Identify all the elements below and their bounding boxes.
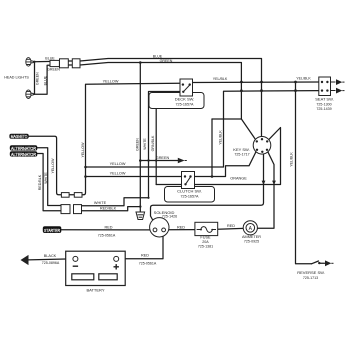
svg-text:YELLOW: YELLOW bbox=[51, 158, 55, 174]
svg-text:725-1657A: 725-1657A bbox=[180, 194, 199, 198]
wire grn/blk stub vertical bbox=[155, 109, 157, 185]
svg-text:GREEN: GREEN bbox=[160, 59, 173, 63]
svg-text:RED/BLK: RED/BLK bbox=[38, 174, 42, 190]
svg-text:YELLOW: YELLOW bbox=[110, 172, 126, 176]
svg-text:725-1713: 725-1713 bbox=[303, 276, 318, 280]
svg-text:725-1657A: 725-1657A bbox=[175, 103, 194, 107]
svg-text:YEL/BLK: YEL/BLK bbox=[296, 76, 311, 80]
svg-text:DECK SW.: DECK SW. bbox=[175, 97, 195, 102]
svg-text:725-0561A: 725-0561A bbox=[98, 233, 116, 237]
svg-text:HEAD LIGHTS: HEAD LIGHTS bbox=[4, 76, 29, 80]
wire starter to solenoid red bbox=[61, 229, 151, 231]
wire yellow2 clutch line bbox=[86, 176, 182, 178]
svg-text:AMMETER: AMMETER bbox=[242, 235, 261, 239]
battery negative chassis arrow bbox=[21, 255, 29, 265]
wire red/blk alternator to ground bbox=[82, 207, 141, 211]
svg-text:GREEN: GREEN bbox=[35, 72, 39, 85]
svg-text:YELLOW: YELLOW bbox=[81, 142, 85, 158]
wire clutch to SW key spoke bbox=[195, 151, 257, 177]
seat switch SEAT SW. bbox=[319, 77, 345, 96]
wire key S to solenoid bbox=[151, 154, 264, 221]
wire green vertical to ground bbox=[139, 63, 141, 212]
svg-text:GREEN: GREEN bbox=[47, 67, 60, 71]
inline connector stubs on yellow bbox=[61, 193, 69, 198]
svg-text:REVERSE SW.: REVERSE SW. bbox=[297, 270, 325, 275]
wire clutch lower-left to x155 bbox=[156, 184, 181, 186]
reverse switch REVERSE SW. bbox=[318, 262, 320, 264]
wire headlight bulb2 to connector bbox=[34, 65, 60, 94]
headlight bulb 1 bbox=[26, 58, 34, 67]
headlight connector female bbox=[72, 59, 80, 68]
inline connector arrow on key SE wire bbox=[272, 181, 276, 185]
wire seat switch to reverse switch bbox=[296, 82, 312, 264]
starter label box bbox=[43, 226, 62, 234]
svg-text:MAGNETO: MAGNETO bbox=[11, 134, 28, 139]
svg-text:GREEN: GREEN bbox=[156, 156, 170, 160]
svg-text:WHITE: WHITE bbox=[44, 172, 48, 184]
svg-text:ALTERNATOR: ALTERNATOR bbox=[11, 146, 37, 151]
wire orange clutch to key NE bbox=[195, 128, 281, 185]
reverse switch blade bbox=[312, 261, 319, 264]
svg-text:GREEN: GREEN bbox=[136, 138, 140, 151]
svg-text:SEAT SW.: SEAT SW. bbox=[315, 97, 334, 102]
svg-text:YEL/BLK: YEL/BLK bbox=[219, 130, 223, 145]
deck switch DECK SW. bbox=[180, 79, 193, 96]
svg-text:YELLOW: YELLOW bbox=[103, 80, 119, 84]
wire connector out pair bbox=[68, 60, 72, 62]
svg-text:WHITE: WHITE bbox=[94, 201, 107, 205]
svg-text:RED: RED bbox=[177, 225, 185, 229]
svg-text:725-1300: 725-1300 bbox=[316, 102, 331, 106]
alternator label box 1 bbox=[10, 145, 38, 151]
wire fuse to ammeter red bbox=[218, 227, 244, 230]
wire green branch to engine plug bbox=[140, 160, 178, 162]
wire y119 jumper to key NW junction bbox=[212, 118, 241, 120]
svg-text:BLACK: BLACK bbox=[44, 254, 57, 258]
wire x212 riser bbox=[211, 119, 213, 177]
svg-text:725-0925: 725-0925 bbox=[244, 239, 259, 243]
wire battery plus to solenoid red bbox=[119, 236, 163, 258]
wire green headlight return to key switch NW via x241 bbox=[80, 63, 256, 140]
svg-text:RED: RED bbox=[141, 254, 149, 258]
svg-text:ORANGE: ORANGE bbox=[230, 177, 247, 181]
svg-text:725-1717: 725-1717 bbox=[234, 153, 249, 157]
ground chassis symbol bbox=[136, 212, 145, 220]
svg-text:725-0561A: 725-0561A bbox=[139, 262, 157, 266]
wire yellow1 interlock to seat switch bottom bbox=[86, 91, 319, 167]
svg-text:ALTERNATOR: ALTERNATOR bbox=[11, 152, 37, 157]
wire key SE to ammeter bbox=[257, 151, 274, 229]
svg-text:BLUE: BLUE bbox=[45, 56, 55, 60]
alternator label box 2 bbox=[10, 151, 38, 157]
wire solenoid to fuse red bbox=[165, 229, 195, 231]
svg-text:725-1426: 725-1426 bbox=[162, 215, 177, 219]
svg-text:BLUE: BLUE bbox=[43, 75, 47, 85]
clutch switch CLUTCH SW. bbox=[182, 172, 195, 189]
wire battery minus black to chassis bbox=[28, 258, 66, 261]
wire headlight jumper vertical bbox=[34, 62, 36, 95]
svg-text:CLUTCH SW.: CLUTCH SW. bbox=[177, 188, 202, 193]
ammeter bbox=[243, 221, 257, 235]
clutch switch label box bbox=[165, 187, 215, 203]
svg-text:BATTERY: BATTERY bbox=[86, 288, 104, 293]
svg-text:RED: RED bbox=[104, 226, 112, 230]
wire alternator1 bbox=[37, 148, 61, 206]
svg-text:YEL/BLK: YEL/BLK bbox=[290, 152, 294, 167]
green engine plug arrow bbox=[178, 158, 185, 163]
wire yel/blk deck switch to seat switch top bbox=[193, 81, 319, 84]
headlight bulb 2 bbox=[26, 90, 34, 99]
svg-text:725-0896A: 725-0896A bbox=[42, 261, 60, 265]
svg-text:725-1439: 725-1439 bbox=[316, 107, 331, 111]
wire headlight bulb1 feed bbox=[34, 60, 60, 63]
svg-text:WHITE: WHITE bbox=[143, 138, 147, 150]
svg-text:RED/BLK: RED/BLK bbox=[100, 207, 117, 211]
svg-text:RED: RED bbox=[227, 224, 235, 228]
svg-text:GRN/BLK: GRN/BLK bbox=[151, 135, 155, 151]
svg-text:YEL/BLK: YEL/BLK bbox=[213, 77, 228, 81]
wire magneto yellow distribution bbox=[29, 83, 181, 195]
deck switch label box bbox=[149, 93, 204, 109]
svg-text:STARTER: STARTER bbox=[44, 228, 60, 234]
wire white alternator to deck switch bbox=[82, 92, 181, 206]
key switch KEY SW. bbox=[253, 137, 271, 155]
svg-text:BLUE: BLUE bbox=[153, 55, 163, 59]
inline connector arrow on key S wire bbox=[262, 181, 266, 185]
fuse FUSE 20A bbox=[195, 222, 218, 235]
solenoid bbox=[150, 218, 169, 237]
wire blue headlight feed to key switch bbox=[80, 59, 262, 137]
magneto label box bbox=[9, 134, 28, 139]
svg-text:725-1381: 725-1381 bbox=[198, 244, 213, 248]
alternator connector squares bbox=[61, 205, 70, 214]
headlight connector male bbox=[60, 59, 69, 68]
wire alternator2 bbox=[37, 154, 61, 211]
headlight connector small bbox=[50, 60, 59, 66]
battery bbox=[66, 251, 126, 285]
svg-text:YELLOW: YELLOW bbox=[110, 162, 126, 166]
svg-text:KEY SW.: KEY SW. bbox=[233, 147, 249, 152]
